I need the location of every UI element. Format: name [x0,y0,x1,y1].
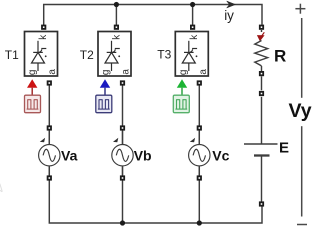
svg-text:a: a [198,69,209,75]
svg-text:a: a [121,69,132,75]
svg-text:N: N [0,181,6,198]
svg-text:a: a [47,69,58,75]
svg-text:Vc: Vc [212,148,229,164]
svg-text:g: g [27,70,38,76]
svg-text:iy: iy [224,8,234,23]
svg-text:T1: T1 [5,48,19,62]
svg-text:Vb: Vb [134,148,152,164]
svg-text:g: g [101,70,112,76]
svg-text:T2: T2 [80,48,94,62]
svg-text:E: E [279,140,289,157]
svg-text:Va: Va [61,148,78,164]
svg-text:Vy: Vy [289,100,312,122]
svg-text:g: g [178,70,189,76]
svg-text:T3: T3 [157,48,171,62]
svg-text:R: R [274,47,286,66]
